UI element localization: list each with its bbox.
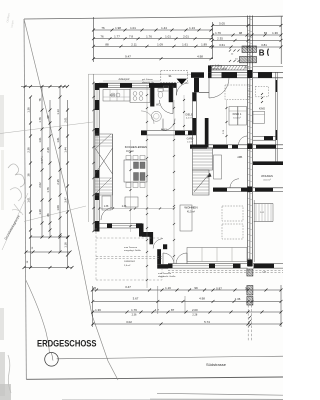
svg-text:9.47: 9.47 xyxy=(125,55,131,59)
svg-text:ARB.: ARB. xyxy=(237,156,243,159)
svg-text:abgedeckt. Größe: abgedeckt. Größe xyxy=(158,275,176,278)
svg-text:2.36: 2.36 xyxy=(27,147,31,153)
svg-text:88: 88 xyxy=(46,213,50,216)
svg-text:5.74: 5.74 xyxy=(204,320,210,324)
svg-text:36: 36 xyxy=(27,173,31,176)
svg-text:3.47: 3.47 xyxy=(64,197,68,203)
svg-text:88: 88 xyxy=(105,42,109,46)
svg-text:10/98/2002: 10/98/2002 xyxy=(124,261,136,263)
svg-text:1.76: 1.76 xyxy=(46,187,50,193)
svg-text:2.35: 2.35 xyxy=(56,179,60,185)
svg-text:Südstrasse: Südstrasse xyxy=(206,362,227,367)
svg-text:abweich. Gr.: abweich. Gr. xyxy=(142,81,155,84)
svg-text:1.76: 1.76 xyxy=(215,31,221,35)
svg-text:3.67: 3.67 xyxy=(133,297,139,301)
svg-text:ERDGESCHOSS: ERDGESCHOSS xyxy=(37,338,97,348)
svg-text:76: 76 xyxy=(101,26,105,30)
svg-text:1.36: 1.36 xyxy=(235,297,241,301)
svg-text:2.11: 2.11 xyxy=(131,42,137,46)
svg-text:76: 76 xyxy=(100,35,104,39)
svg-text:1,5 m²: 1,5 m² xyxy=(187,141,193,144)
svg-text:99: 99 xyxy=(46,115,50,118)
svg-text:abweicht. Größe: abweicht. Größe xyxy=(210,68,228,71)
svg-text:2.36: 2.36 xyxy=(132,313,137,316)
svg-text:3.02: 3.02 xyxy=(126,320,132,324)
svg-text:1.36: 1.36 xyxy=(272,31,278,35)
svg-text:3.47: 3.47 xyxy=(125,285,131,289)
svg-text:2,0 m²: 2,0 m² xyxy=(124,264,130,267)
svg-text:1.76: 1.76 xyxy=(131,308,137,312)
svg-text:1.16: 1.16 xyxy=(165,286,171,290)
svg-text:26: 26 xyxy=(93,286,97,290)
svg-text:1.09: 1.09 xyxy=(157,42,163,46)
svg-text:0.87: 0.87 xyxy=(216,287,222,291)
svg-text:2.02: 2.02 xyxy=(38,182,42,188)
svg-text:76: 76 xyxy=(38,98,42,101)
svg-text:31: 31 xyxy=(168,74,172,78)
svg-text:99: 99 xyxy=(194,286,198,290)
svg-text:1.38: 1.38 xyxy=(104,206,109,208)
svg-text:ABST.: ABST. xyxy=(161,128,167,131)
svg-text:1.36: 1.36 xyxy=(27,107,31,113)
svg-text:1.76: 1.76 xyxy=(38,117,42,123)
svg-text:1.13: 1.13 xyxy=(189,26,195,30)
svg-text:B: B xyxy=(259,48,265,57)
svg-text:zum Terrasse: zum Terrasse xyxy=(158,272,172,275)
svg-text:2.35: 2.35 xyxy=(217,36,223,40)
svg-text:zum Terrasse: zum Terrasse xyxy=(124,246,138,249)
svg-text:10,5 m²: 10,5 m² xyxy=(233,117,241,120)
svg-text:KOCHEN-ESSEN: KOCHEN-ESSEN xyxy=(125,145,147,149)
svg-text:DIELE: DIELE xyxy=(186,114,193,117)
svg-text:2.00: 2.00 xyxy=(192,308,198,312)
svg-text:1.13: 1.13 xyxy=(56,109,60,115)
svg-text:1.09: 1.09 xyxy=(56,205,60,211)
svg-text:41,5 m²: 41,5 m² xyxy=(263,179,271,182)
svg-text:1.36: 1.36 xyxy=(95,308,101,312)
svg-text:1.01: 1.01 xyxy=(130,26,136,30)
svg-text:16,5 m²: 16,5 m² xyxy=(126,150,134,153)
svg-text:Außenputz: Außenputz xyxy=(118,78,130,81)
svg-text:1.01: 1.01 xyxy=(27,197,31,203)
svg-text:2.28: 2.28 xyxy=(192,313,197,316)
svg-text:36: 36 xyxy=(245,287,249,291)
svg-text:WOHNEN: WOHNEN xyxy=(261,174,273,178)
svg-text:87: 87 xyxy=(171,308,175,312)
svg-text:4,2 m²: 4,2 m² xyxy=(186,117,192,120)
svg-text:98: 98 xyxy=(239,31,243,35)
svg-text:1.44: 1.44 xyxy=(64,147,68,153)
svg-text:2.01: 2.01 xyxy=(64,117,68,123)
svg-text:41,5 m²: 41,5 m² xyxy=(187,210,195,213)
svg-text:1.61: 1.61 xyxy=(56,137,60,143)
svg-text:GARD: GARD xyxy=(187,138,194,141)
svg-text:KIND 1: KIND 1 xyxy=(233,112,242,116)
svg-text:4.98: 4.98 xyxy=(199,297,205,301)
svg-text:1.76: 1.76 xyxy=(146,35,152,39)
svg-text:7 8: 7 8 xyxy=(129,35,133,39)
svg-text:1.89: 1.89 xyxy=(201,42,207,46)
svg-text:2.23: 2.23 xyxy=(110,94,115,97)
svg-text:5.05: 5.05 xyxy=(219,22,225,26)
svg-text:gel. Futzen: gel. Futzen xyxy=(142,78,154,81)
svg-text:2.36: 2.36 xyxy=(46,147,50,153)
svg-text:1.16: 1.16 xyxy=(64,242,68,248)
svg-text:1.01: 1.01 xyxy=(38,137,42,143)
svg-text:1.44: 1.44 xyxy=(161,26,167,30)
svg-text:WOHNEN: WOHNEN xyxy=(184,206,197,210)
svg-text:ausgelegt. Größe: ausgelegt. Größe xyxy=(124,249,142,252)
svg-text:2.01: 2.01 xyxy=(183,35,189,39)
svg-text:3.81: 3.81 xyxy=(261,43,267,47)
svg-text:87: 87 xyxy=(264,31,268,35)
svg-text:4 7: 4 7 xyxy=(155,308,159,312)
svg-text:WC: WC xyxy=(156,105,160,107)
svg-text:1.01: 1.01 xyxy=(165,35,171,39)
svg-text:1.38: 1.38 xyxy=(38,209,42,215)
svg-text:zum Aufbau: zum Aufbau xyxy=(210,65,223,68)
svg-text:3.61: 3.61 xyxy=(219,43,225,47)
svg-text:1.98: 1.98 xyxy=(115,26,121,30)
svg-text:KIND: KIND xyxy=(259,107,265,111)
svg-text:1.61: 1.61 xyxy=(182,42,188,46)
svg-text:1.77: 1.77 xyxy=(114,35,120,39)
svg-text:2.36: 2.36 xyxy=(122,206,127,208)
svg-text:4.98: 4.98 xyxy=(197,55,203,59)
